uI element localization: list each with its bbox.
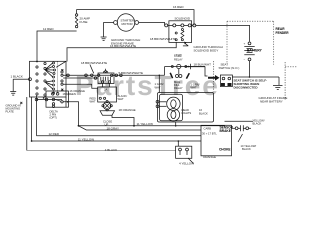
headlight enclosure: [158, 93, 214, 123]
wire 1 BLACK: [13, 78, 28, 80]
junction headlight tap: [159, 75, 161, 77]
wire 12 RED bottom: [37, 135, 202, 137]
svg-text:CHOKE: CHOKE: [219, 148, 231, 152]
wire relay to seat: [186, 67, 208, 76]
svg-text:4 YELLOW: 4 YELLOW: [179, 162, 194, 166]
wire 11 YELLOW mid: [79, 124, 225, 127]
wire headlight bottom: [175, 122, 177, 126]
svg-text:(OPT): (OPT): [50, 116, 57, 120]
svg-text:SOLENOID BODY: SOLENOID BODY: [194, 48, 219, 52]
lower connector block: [176, 146, 192, 158]
svg-text:BATTERY: BATTERY: [247, 49, 263, 53]
junction key switch top: [36, 61, 38, 63]
left riser wire B: [31, 97, 33, 141]
svg-text:2A: 2A: [104, 88, 107, 92]
headlight lamp 1: [167, 97, 180, 110]
arrow 4 YELLOW: [188, 158, 194, 164]
svg-text:LIGHTS: LIGHTS: [182, 111, 192, 115]
svg-text:SWITCH (N.O.): SWITCH (N.O.): [219, 66, 240, 70]
left riser wire A: [26, 97, 28, 151]
svg-text:18 BROWN/WHITE: 18 BROWN/WHITE: [81, 61, 107, 65]
svg-text:18 BROWN/WHITE: 18 BROWN/WHITE: [150, 37, 176, 41]
headlight lamp 2: [167, 109, 179, 121]
wire 2-pin feed: [37, 99, 63, 101]
svg-text:18 GRAY: 18 GRAY: [107, 126, 119, 130]
dashed box rear fender: [227, 21, 297, 100]
svg-text:SOLENOID: SOLENOID: [175, 17, 191, 21]
connector shell trapezoid: [100, 111, 115, 115]
arrow 10 YELLOW/BLACK: [238, 134, 243, 142]
svg-text:BLACK: BLACK: [242, 147, 251, 151]
svg-text:ORANGE: ORANGE: [203, 155, 216, 159]
svg-text:RELAY: RELAY: [174, 57, 183, 61]
junction: [249, 76, 251, 78]
svg-text:30 + 17 BTL: 30 + 17 BTL: [202, 132, 217, 136]
svg-text:FENDER: FENDER: [276, 31, 290, 35]
ground engine frame: [101, 37, 107, 40]
svg-text:18 BLK/WHT: 18 BLK/WHT: [194, 62, 212, 66]
svg-text:16 RED: 16 RED: [173, 5, 184, 9]
fuse 20 AMP: [75, 25, 77, 27]
svg-text:12 RED: 12 RED: [43, 27, 54, 31]
wire battery minus to seat net: [250, 61, 280, 77]
svg-text:WHT: WHT: [118, 97, 124, 101]
svg-text:1 BLACK: 1 BLACK: [11, 75, 23, 79]
wire 4 BLACK gray: [27, 150, 176, 152]
wire starter to ground: [104, 23, 114, 38]
seat switch: [220, 75, 232, 87]
switch terminals col4: [61, 71, 63, 73]
delta 2 pin switch: [46, 91, 68, 107]
dashed seat enclosure edge: [213, 61, 215, 90]
cluster corner diagonal: [56, 61, 66, 67]
svg-text:12 RED: 12 RED: [49, 132, 60, 136]
carburetor box: [201, 125, 232, 156]
wire solenoid to battery: [196, 25, 250, 41]
svg-text:FUSE: FUSE: [80, 20, 88, 24]
wire row Y2: [63, 77, 98, 79]
ground through solenoid body arrow: [183, 42, 188, 46]
switch fan lines: [45, 63, 53, 76]
svg-text:WHT: WHT: [155, 85, 161, 89]
svg-text:DISCONNECTED: DISCONNECTED: [234, 86, 259, 90]
headlight connector: [156, 100, 159, 103]
wire carb upper right: [225, 120, 254, 122]
module stubs: [102, 84, 104, 88]
wire top 16 RED: [77, 10, 194, 26]
svg-text:BLACK: BLACK: [199, 111, 208, 115]
starter motor: [117, 14, 134, 31]
svg-text:16 BROWN/WHITE: 16 BROWN/WHITE: [110, 44, 136, 48]
junction to connector: [178, 140, 180, 142]
svg-text:BRAKE: BRAKE: [220, 129, 231, 133]
round connector: [103, 102, 111, 110]
wire 18 BROWN/WHITE to solenoid: [67, 42, 176, 61]
switch terminals col2: [44, 62, 46, 64]
svg-text:RELAY: RELAY: [174, 86, 183, 90]
switch terminals col3 fan contacts: [53, 62, 55, 64]
svg-text:5 BROWN/WHITE: 5 BROWN/WHITE: [119, 71, 144, 75]
x mark: [20, 102, 22, 104]
wire row Y1: [63, 74, 164, 76]
svg-text:18 ORANGE: 18 ORANGE: [119, 108, 136, 112]
svg-text:NEAR BATTERY: NEAR BATTERY: [260, 99, 283, 103]
svg-text:11 YELLOW: 11 YELLOW: [137, 122, 154, 126]
svg-text:11 YELLOW: 11 YELLOW: [78, 137, 95, 141]
svg-text:MOTOR: MOTOR: [122, 22, 134, 26]
wire to left ground: [12, 79, 14, 91]
wire 12 RED top-left riser: [37, 31, 77, 62]
wire 18 GRAY: [79, 126, 202, 130]
headlight lamp housing: [160, 94, 183, 121]
carb capacitor: [235, 127, 238, 130]
svg-text:18 GREEN: 18 GREEN: [63, 92, 76, 96]
trio drop: [164, 67, 166, 76]
wire step to module: [63, 84, 97, 88]
svg-text:CARB: CARB: [204, 126, 212, 130]
wire 11 YELLOW bottom: [32, 140, 201, 142]
svg-text:4 BLACK: 4 BLACK: [105, 148, 117, 152]
x mark right: [61, 69, 63, 91]
svg-text:PLATE: PLATE: [6, 110, 15, 114]
ignition switch cluster: [30, 61, 67, 97]
svg-text:BLACK: BLACK: [253, 122, 262, 126]
svg-text:−: −: [244, 58, 246, 62]
svg-text:WHT: WHT: [191, 86, 197, 90]
left riser wire C: [36, 96, 38, 136]
ground at mounting plate: [10, 92, 16, 96]
wire 2pin to module drop: [63, 102, 78, 126]
svg-text:+: +: [244, 41, 246, 45]
upper module: [98, 73, 114, 84]
wire starter to solenoid: [139, 23, 165, 26]
solenoid coil: [181, 29, 183, 31]
lower module: [98, 87, 117, 102]
ground at frame near battery: [278, 77, 280, 85]
arrow to seat switch: [208, 75, 220, 81]
switch terminals col1: [36, 66, 38, 68]
headlight feed wire: [158, 75, 160, 92]
svg-text:WHT: WHT: [90, 100, 96, 104]
magneto kill connector: [178, 69, 180, 75]
